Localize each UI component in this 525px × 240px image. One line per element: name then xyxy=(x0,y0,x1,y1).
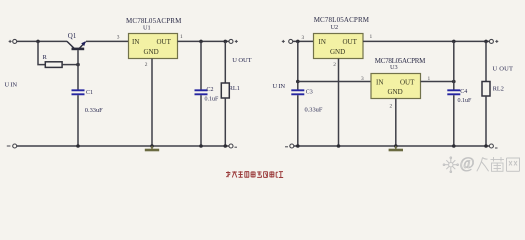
terminal - (right circuit bottom left) xyxy=(285,144,294,148)
wire U2 OUT to output terminal xyxy=(363,40,489,42)
wire U3 input xyxy=(298,81,371,83)
terminal input + (left top) xyxy=(9,39,17,43)
svg-text:1: 1 xyxy=(370,34,373,40)
svg-text:0.33uF: 0.33uF xyxy=(305,107,323,114)
wire RL1 vertical top xyxy=(224,41,226,83)
ground (right circuit) xyxy=(389,146,403,150)
resistor RL2 xyxy=(482,82,504,97)
svg-text:MC78L05ACPRM: MC78L05ACPRM xyxy=(375,57,426,65)
svg-text:MC78L05ACPRM: MC78L05ACPRM xyxy=(126,17,182,25)
node U3 input junction xyxy=(296,80,300,84)
svg-text:1: 1 xyxy=(180,34,183,40)
terminal input + (right circuit) xyxy=(282,39,293,43)
svg-text:Q1: Q1 xyxy=(68,32,77,40)
svg-text:R: R xyxy=(43,54,48,61)
capacitor C1 xyxy=(72,90,104,114)
wire input to U2 IN xyxy=(293,40,314,42)
svg-text:GND: GND xyxy=(388,88,403,96)
node RL1 top junction xyxy=(224,40,228,44)
node U2 GND rail junction xyxy=(337,144,341,148)
wire C1 bottom to rail xyxy=(77,95,79,146)
node RL2 rail junction xyxy=(484,144,488,148)
svg-text:U IN: U IN xyxy=(5,81,18,88)
node RL1 rail junction xyxy=(224,144,228,148)
svg-text:IN: IN xyxy=(132,38,139,46)
watermark icon (snowflake) xyxy=(443,157,458,173)
resistor RL1 xyxy=(221,83,240,98)
node base/R junction xyxy=(76,63,80,67)
transistor Q1 xyxy=(67,32,86,49)
wire resistor R to base line xyxy=(62,64,78,66)
svg-text:OUT: OUT xyxy=(343,38,358,46)
node U3 OUT / C4 junction xyxy=(452,80,456,84)
svg-text:3: 3 xyxy=(302,35,305,41)
wire C2 vertical xyxy=(200,41,202,89)
svg-text:2: 2 xyxy=(333,62,336,68)
svg-text:MC78L05ACPRM: MC78L05ACPRM xyxy=(314,16,370,24)
terminal output + (left circuit) xyxy=(229,39,238,43)
wire C2 bottom to rail xyxy=(200,95,202,146)
node C1 rail junction xyxy=(76,144,80,148)
svg-text:3: 3 xyxy=(117,35,120,41)
wire C4 bottom to rail xyxy=(453,95,455,146)
wire RL1 bottom to rail xyxy=(224,98,226,146)
watermark char 网 xyxy=(507,158,520,171)
wire Q1 base down to C1 xyxy=(77,50,79,89)
svg-text:GND: GND xyxy=(144,48,159,56)
svg-text:RL1: RL1 xyxy=(229,85,240,92)
svg-text:C1: C1 xyxy=(86,90,93,96)
op-amp/regulator U3 MC78L05ACPRM xyxy=(371,57,426,99)
node RL2 top junction xyxy=(484,40,488,44)
wire bottom rail (right circuit) xyxy=(294,145,490,147)
svg-text:0.1uF: 0.1uF xyxy=(458,98,473,104)
svg-text:U2: U2 xyxy=(331,24,339,31)
svg-text:OUT: OUT xyxy=(400,78,415,86)
svg-text:U1: U1 xyxy=(143,25,151,32)
wire U3 OUT to C4 line xyxy=(421,81,454,83)
node C3 rail junction xyxy=(296,144,300,148)
wire junction down to resistor R xyxy=(38,41,45,64)
svg-text:U IN: U IN xyxy=(273,83,286,90)
node C4 rail junction xyxy=(452,144,456,148)
op-amp/regulator U2 MC78L05ACPRM xyxy=(314,16,370,59)
watermark char 久 xyxy=(477,158,489,172)
svg-text:IN: IN xyxy=(319,38,326,46)
node C4 top junction xyxy=(452,40,456,44)
svg-text:U OUT: U OUT xyxy=(232,57,251,64)
svg-text:C2: C2 xyxy=(207,87,214,93)
svg-text:RL2: RL2 xyxy=(493,86,504,93)
svg-text:3: 3 xyxy=(361,76,364,82)
wire bottom rail (left circuit) xyxy=(17,145,229,147)
node C2 rail junction xyxy=(199,144,203,148)
svg-text:@: @ xyxy=(460,155,475,172)
terminal - (right circuit bottom right) xyxy=(489,144,497,148)
wire U1 GND down to ground rail xyxy=(151,59,153,147)
svg-text:C3: C3 xyxy=(306,89,313,95)
terminal output + (right circuit) xyxy=(489,39,498,43)
wire U3 GND down to rail xyxy=(395,99,397,147)
svg-text:IN: IN xyxy=(376,78,383,86)
svg-text:0.1uF: 0.1uF xyxy=(205,96,220,102)
svg-text:0.33uF: 0.33uF xyxy=(85,107,103,114)
capacitor C3 xyxy=(291,89,323,113)
wire RL2 bottom to rail xyxy=(485,96,487,146)
op-amp/regulator U1 MC78L05ACPRM xyxy=(126,17,182,59)
svg-text:C4: C4 xyxy=(460,89,467,95)
terminal - (left circuit bottom left) xyxy=(7,144,17,148)
watermark char (middle) xyxy=(491,157,505,171)
ground (left circuit) xyxy=(145,146,159,150)
node GND rail junction xyxy=(150,144,154,148)
capacitor C2 xyxy=(195,87,220,102)
wire U2 GND down to rail (crosses U3 input wire) xyxy=(338,59,340,147)
svg-text:U OUT: U OUT xyxy=(493,66,514,73)
capacitor C4 xyxy=(447,89,472,104)
wire Q1 collector to U1 IN xyxy=(86,40,129,42)
node input drop junction xyxy=(296,40,300,44)
resistor R xyxy=(43,54,63,67)
node U3 GND rail junction xyxy=(394,144,398,148)
wire input top rail to Q1 emitter xyxy=(17,40,67,42)
svg-text:2: 2 xyxy=(390,104,393,110)
svg-text:2: 2 xyxy=(145,62,148,68)
terminal - (left circuit bottom right) xyxy=(229,144,237,148)
wire RL2 vertical top xyxy=(485,41,487,81)
wire C4 vertical top xyxy=(453,41,455,89)
wire C3 bottom to rail xyxy=(297,95,299,146)
caption 扩大输出电流的电路 (imitated strokes) xyxy=(226,171,283,177)
node input/R junction xyxy=(36,40,40,44)
node C2 top junction xyxy=(199,40,203,44)
svg-text:GND: GND xyxy=(330,48,345,56)
svg-text:U3: U3 xyxy=(390,64,398,71)
wire U1 OUT to output terminal xyxy=(178,40,230,42)
wire input drop down to U3 IN level xyxy=(297,41,299,89)
svg-text:OUT: OUT xyxy=(157,38,172,46)
